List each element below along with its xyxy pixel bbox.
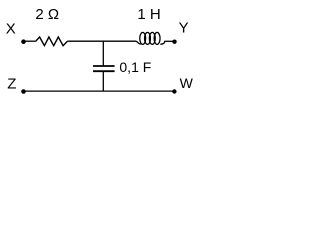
wire resistor to coil (through capacitor junction) <box>67 40 136 42</box>
capacitor bottom plate <box>93 70 115 72</box>
node Z terminal dot <box>21 89 26 94</box>
svg-text:0,1 F: 0,1 F <box>119 59 151 75</box>
svg-text:W: W <box>180 75 194 91</box>
inductor L1 loop 4 <box>154 32 160 44</box>
svg-text:1 H: 1 H <box>137 6 160 23</box>
inductor L1 loop 2 <box>145 32 151 44</box>
node W terminal dot <box>172 89 176 93</box>
node Y terminal dot <box>172 40 176 44</box>
resistor 2Ω zigzag <box>36 37 68 46</box>
inductor exit lead <box>160 41 164 44</box>
bottom rail wire Z to W <box>24 90 175 92</box>
wire coil to Y <box>164 40 174 42</box>
svg-text:Z: Z <box>7 75 16 92</box>
wire capacitor bottom plate to bottom rail <box>102 71 104 91</box>
svg-text:X: X <box>6 21 16 38</box>
inductor L1 loop 1 <box>140 32 146 44</box>
node X terminal dot <box>21 39 26 44</box>
wire X to resistor <box>24 40 36 42</box>
inductor entrance lead <box>136 41 141 44</box>
svg-text:2 Ω: 2 Ω <box>35 6 59 23</box>
svg-text:Y: Y <box>179 20 189 37</box>
capacitor top plate <box>93 65 115 67</box>
inductor L1 loop 3 <box>149 32 155 44</box>
wire top rail to capacitor top plate <box>102 41 104 66</box>
